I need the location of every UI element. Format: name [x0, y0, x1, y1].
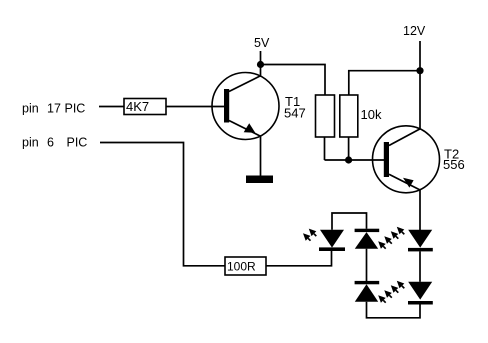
wire 100R to LED D1 cathode: [266, 251, 332, 266]
wire 5V down to node: [260, 51, 262, 76]
wire pin17 to resistor 4K7: [99, 106, 124, 108]
resistor R2a 10k left: [316, 95, 335, 137]
wire LED D2 anode down to LED D3: [366, 249, 368, 281]
wire T1 emitter down: [260, 136, 262, 176]
wire pin6 right, down and to 100R: [100, 143, 225, 266]
wire T2 emitter down to LED chain: [419, 190, 421, 230]
node junction at 5V rail: [257, 61, 264, 68]
LED D5 right-bottom (points down): [408, 282, 433, 305]
resistor R3 100R: [225, 257, 266, 275]
light arrows of LED D1: [303, 229, 316, 241]
light arrows between D2 and D4 (top row): [378, 227, 404, 249]
transistor T2 BC556 PNP: [373, 126, 440, 193]
light arrows between D3 and D5 (bottom row): [378, 281, 404, 303]
svg-text:4K7: 4K7: [126, 99, 149, 114]
svg-text:pin17PIC: pin17PIC: [22, 102, 85, 116]
node junction resistor bottoms: [345, 156, 352, 163]
LED D4 right-top (points down): [408, 230, 433, 252]
LED D3 middle-bottom (points up): [355, 281, 380, 302]
svg-text:10k: 10k: [361, 107, 382, 122]
resistor R1 4K7: [124, 99, 166, 115]
wire resistor bottoms to T2 base: [325, 137, 385, 160]
svg-text:12V: 12V: [403, 24, 426, 38]
node junction at 12V rail: [416, 67, 423, 74]
wire 12V down to T2 collector: [419, 41, 421, 129]
svg-text:547: 547: [284, 106, 306, 121]
transistor T1 BC547 NPN: [212, 73, 279, 140]
resistor R2b 10k right: [340, 95, 358, 137]
wire 5V node to left 10k resistor top: [261, 65, 326, 96]
ground: [246, 176, 273, 184]
wire 12V node to right 10k resistor top: [349, 71, 420, 95]
wire LED D3 anode down, bottom run, up to LED D5: [367, 302, 421, 318]
wire LED D1 anode up and over to LED D2: [332, 213, 367, 230]
svg-text:556: 556: [443, 157, 465, 172]
LED D1 top-left (points down): [319, 230, 345, 251]
wire LED D4 to LED D5: [419, 251, 421, 281]
LED D2 middle-top (points up): [355, 229, 380, 249]
svg-text:5V: 5V: [254, 36, 270, 50]
wire 4K7 to T1 base: [166, 106, 224, 108]
svg-text:100R: 100R: [227, 260, 256, 274]
